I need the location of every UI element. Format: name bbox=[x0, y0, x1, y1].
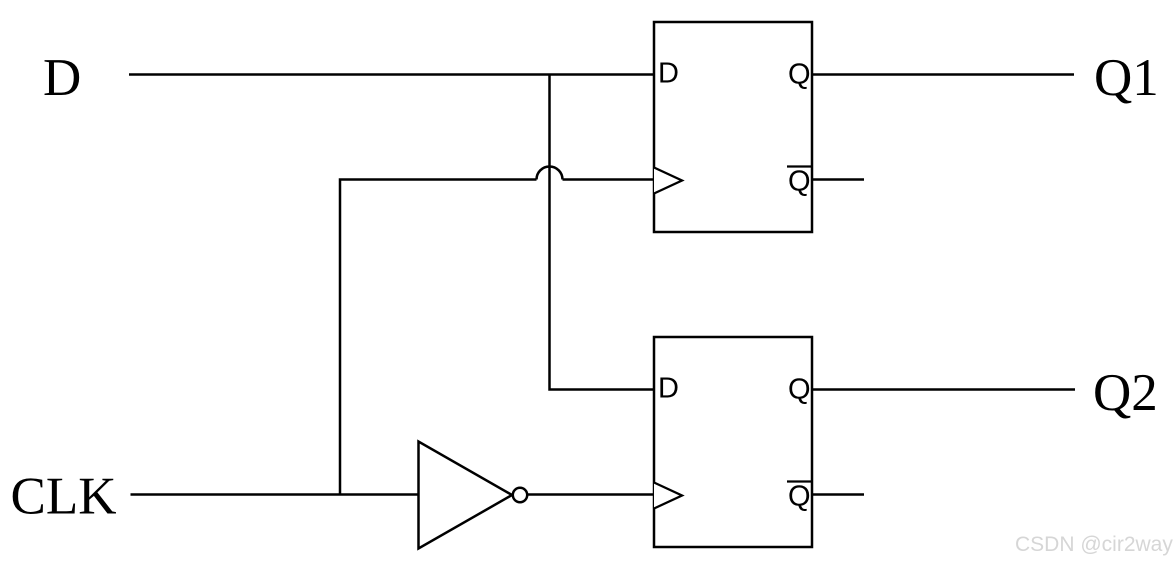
U2 Qbar overline bbox=[787, 480, 812, 482]
svg-text:Q2: Q2 bbox=[1093, 364, 1158, 422]
svg-text:Q: Q bbox=[788, 166, 811, 198]
svg-text:Q: Q bbox=[788, 374, 811, 406]
flip-flop U1 box bbox=[654, 22, 812, 232]
svg-text:CLK: CLK bbox=[11, 468, 117, 526]
wire: U2.Q output bbox=[812, 388, 1075, 391]
svg-text:D: D bbox=[658, 373, 679, 405]
wire: U1.Qbar stub bbox=[812, 178, 864, 181]
inverter U3 triangle bbox=[419, 442, 513, 549]
svg-text:CSDN @cir2way: CSDN @cir2way bbox=[1015, 533, 1173, 556]
wire: branch from D net down to U2.D bbox=[550, 75, 655, 390]
svg-text:Q1: Q1 bbox=[1094, 49, 1159, 107]
wire: CLK branch up bbox=[340, 180, 537, 495]
wire: hop to U1 clock pin bbox=[563, 178, 655, 181]
wire: U1.Q output bbox=[812, 73, 1074, 76]
inverter U3 bubble bbox=[513, 488, 527, 502]
svg-text:Q: Q bbox=[788, 59, 811, 91]
svg-text:D: D bbox=[658, 58, 679, 90]
U1 Qbar overline bbox=[787, 165, 812, 167]
wire: D input to U1.D bbox=[129, 73, 654, 76]
wire hop over D branch bbox=[537, 167, 563, 180]
svg-text:D: D bbox=[43, 49, 81, 107]
U2 clock edge triangle bbox=[654, 483, 682, 509]
U1 clock edge triangle bbox=[654, 168, 682, 194]
flip-flop U2 box bbox=[654, 337, 812, 547]
wire: inverter output to U2 clock pin bbox=[528, 493, 655, 496]
wire: CLK input to inverter bbox=[131, 493, 419, 496]
svg-text:Q: Q bbox=[788, 481, 811, 513]
wire: U2.Qbar stub bbox=[812, 493, 864, 496]
